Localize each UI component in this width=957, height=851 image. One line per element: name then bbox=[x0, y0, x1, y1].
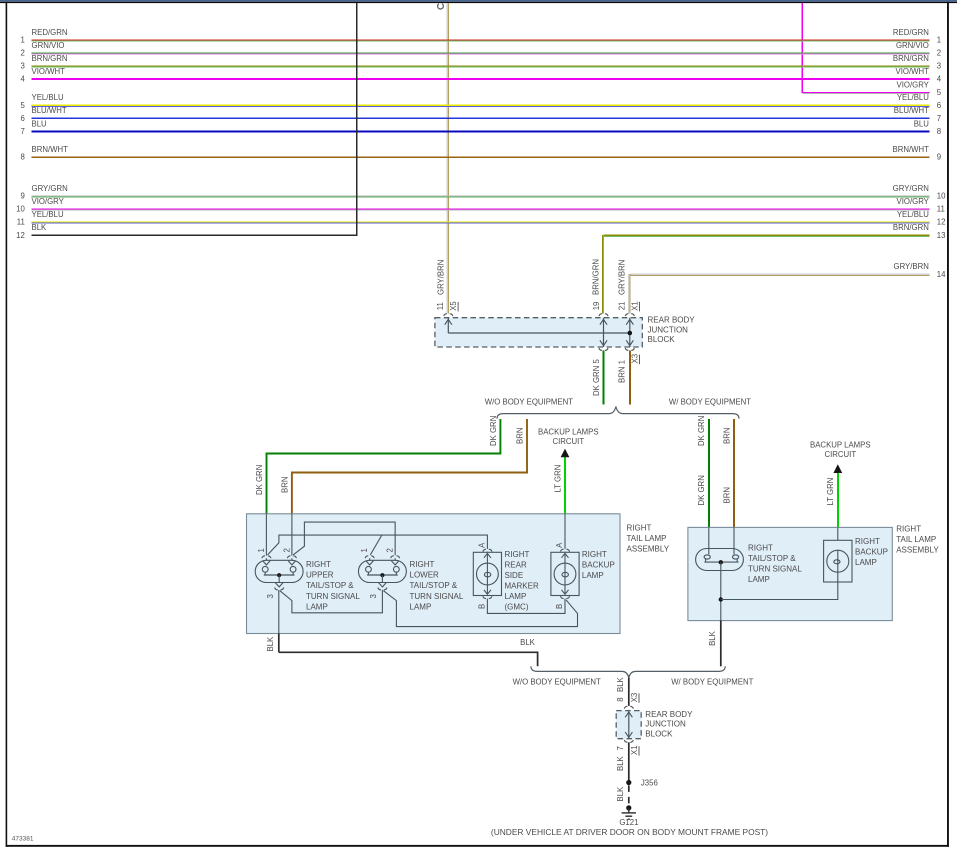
svg-text:BLOCK: BLOCK bbox=[645, 729, 673, 738]
wire BRN from junction block to brace bbox=[629, 350, 631, 404]
wire VIO/WHT row y=79.0 bbox=[32, 78, 930, 80]
svg-text:LAMP: LAMP bbox=[582, 571, 604, 580]
svg-text:BLK: BLK bbox=[520, 638, 536, 647]
svg-text:7: 7 bbox=[937, 114, 941, 123]
svg-text:YEL/BLU: YEL/BLU bbox=[897, 210, 929, 219]
svg-text:BACKUP: BACKUP bbox=[582, 560, 615, 569]
wire BRN/WHT row y=157.0 bbox=[32, 156, 930, 158]
top slate band bbox=[0, 0, 957, 2]
svg-text:2: 2 bbox=[937, 49, 941, 58]
svg-text:RIGHT: RIGHT bbox=[748, 544, 773, 553]
wire VIO/GRY row y=209.0 bbox=[32, 209, 930, 210]
wire BRN/GRN right row 13 bbox=[604, 235, 930, 236]
svg-text:VIO/GRY: VIO/GRY bbox=[897, 197, 930, 206]
right tail lamp assembly box (W/O body equipment) bbox=[247, 514, 621, 634]
svg-text:UPPER: UPPER bbox=[306, 571, 334, 580]
svg-text:A: A bbox=[478, 542, 487, 548]
wire YEL/BLU row y=222.0 bbox=[32, 222, 930, 223]
wire BLK to splice J356 bbox=[628, 742, 630, 780]
lamp RIGHT BACKUP box bbox=[551, 552, 579, 595]
svg-text:JUNCTION: JUNCTION bbox=[645, 720, 686, 729]
wire BLK from right lamp assembly bbox=[720, 621, 722, 667]
svg-text:BLU: BLU bbox=[32, 119, 48, 128]
svg-text:REAR BODY: REAR BODY bbox=[648, 316, 696, 325]
svg-text:BLK: BLK bbox=[708, 630, 717, 646]
svg-text:3: 3 bbox=[369, 594, 378, 598]
svg-text:X5: X5 bbox=[449, 301, 458, 311]
svg-text:12: 12 bbox=[16, 231, 25, 240]
svg-text:TURN SIGNAL: TURN SIGNAL bbox=[748, 565, 802, 574]
svg-text:BRN/GRN: BRN/GRN bbox=[893, 54, 929, 63]
svg-text:LAMP: LAMP bbox=[505, 592, 527, 601]
svg-text:A: A bbox=[555, 542, 564, 548]
svg-text:GRY/GRN: GRY/GRN bbox=[893, 184, 929, 193]
svg-text:7: 7 bbox=[616, 746, 625, 750]
junction block internal wire pin19 to DK GRN bbox=[603, 318, 605, 347]
wire BLU/WHT row y=118.2 bbox=[32, 117, 930, 119]
svg-text:3: 3 bbox=[266, 594, 275, 598]
svg-text:2: 2 bbox=[386, 548, 395, 552]
wire GRY/GRN row y=196.0 bbox=[32, 196, 930, 197]
svg-text:SIDE: SIDE bbox=[505, 571, 524, 580]
lamp RIGHT BACKUP LAMP right box bbox=[824, 540, 852, 582]
junction block bus bbox=[448, 332, 630, 334]
svg-text:RIGHT: RIGHT bbox=[306, 560, 331, 569]
pin A connector bbox=[561, 549, 570, 551]
svg-text:RIGHT: RIGHT bbox=[582, 550, 607, 559]
svg-text:11: 11 bbox=[937, 205, 945, 214]
bottom border bbox=[6, 845, 949, 847]
junction block internal wire pin21 to BRN bbox=[629, 318, 631, 347]
svg-text:DK GRN: DK GRN bbox=[697, 416, 706, 446]
wire ground node to right backup lamp bbox=[721, 582, 838, 600]
pin A connector bbox=[483, 549, 492, 551]
wire DK GRN right branch bbox=[708, 419, 710, 527]
svg-text:X1: X1 bbox=[630, 745, 639, 755]
svg-text:VIO/WHT: VIO/WHT bbox=[32, 67, 66, 76]
svg-text:12: 12 bbox=[937, 218, 946, 227]
svg-text:TAIL LAMP: TAIL LAMP bbox=[896, 535, 936, 544]
svg-text:DK GRN 5: DK GRN 5 bbox=[592, 359, 601, 396]
svg-text:BRN/GRN: BRN/GRN bbox=[32, 54, 68, 63]
wire GRN/VIO row y=53.0 bbox=[32, 53, 930, 54]
svg-text:4: 4 bbox=[937, 75, 942, 84]
gray feed wire into left backup lamp bbox=[564, 514, 566, 549]
svg-text:8: 8 bbox=[20, 153, 24, 162]
rear body junction block box bbox=[435, 318, 642, 347]
pin 2 internal filament bbox=[288, 561, 296, 565]
svg-text:DK GRN: DK GRN bbox=[255, 465, 264, 495]
left border bbox=[6, 2, 8, 847]
svg-text:RED/GRN: RED/GRN bbox=[893, 28, 929, 37]
svg-text:GRY/GRN: GRY/GRN bbox=[32, 184, 68, 193]
right lamp common wire bbox=[704, 561, 738, 563]
svg-text:BRN/GRN: BRN/GRN bbox=[592, 259, 601, 295]
svg-text:LOWER: LOWER bbox=[410, 571, 440, 580]
pin 2 connector bbox=[391, 556, 400, 558]
svg-text:YEL/BLU: YEL/BLU bbox=[897, 93, 929, 102]
svg-text:(UNDER VEHICLE AT DRIVER DOOR: (UNDER VEHICLE AT DRIVER DOOR ON BODY MO… bbox=[491, 827, 768, 837]
lamp internal common wire bbox=[264, 574, 295, 576]
svg-text:14: 14 bbox=[937, 270, 946, 279]
svg-text:7: 7 bbox=[20, 127, 24, 136]
svg-text:10: 10 bbox=[937, 192, 946, 201]
wire pin2 branch to lower lamp bbox=[293, 522, 395, 555]
svg-text:W/ BODY EQUIPMENT: W/ BODY EQUIPMENT bbox=[669, 397, 751, 406]
wire VIO/GRY row y=92.3 bbox=[802, 92, 929, 93]
svg-text:(GMC): (GMC) bbox=[505, 602, 529, 611]
svg-text:VIO/GRY: VIO/GRY bbox=[897, 80, 930, 89]
svg-text:9: 9 bbox=[937, 153, 941, 162]
pin B connector bbox=[561, 596, 570, 598]
pin 21 X1 entry bbox=[625, 314, 634, 316]
svg-text:TURN SIGNAL: TURN SIGNAL bbox=[410, 592, 464, 601]
svg-text:W/O BODY EQUIPMENT: W/O BODY EQUIPMENT bbox=[485, 397, 573, 406]
svg-text:1: 1 bbox=[937, 36, 941, 45]
pin 3 exit bbox=[275, 583, 283, 587]
svg-text:13: 13 bbox=[937, 231, 946, 240]
svg-text:BLK: BLK bbox=[266, 636, 275, 652]
svg-text:RED/GRN: RED/GRN bbox=[32, 28, 68, 37]
wire RED/GRN row y=40.0 bbox=[32, 40, 930, 41]
svg-text:3: 3 bbox=[937, 62, 941, 71]
lamp RIGHT UPPER stadium body bbox=[255, 560, 303, 582]
svg-text:YEL/BLU: YEL/BLU bbox=[32, 93, 64, 102]
wire BRN/GRN row y=66.0 bbox=[32, 66, 930, 67]
svg-text:3: 3 bbox=[20, 62, 24, 71]
svg-text:6: 6 bbox=[937, 101, 941, 110]
svg-text:BRN: BRN bbox=[722, 428, 731, 444]
pin 11 X5 entry bbox=[444, 314, 453, 316]
svg-text:YEL/BLU: YEL/BLU bbox=[32, 210, 64, 219]
junction block internal wire from pin 11 bbox=[447, 318, 449, 333]
svg-text:BRN 1: BRN 1 bbox=[617, 360, 626, 383]
pin 19 entry bbox=[599, 314, 608, 316]
svg-text:BLK: BLK bbox=[616, 786, 625, 802]
wire BLK riser vertical bbox=[356, 3, 358, 236]
pin 3 exit bbox=[379, 583, 387, 587]
wire BRN right branch bbox=[733, 419, 735, 527]
pin 2 internal filament bbox=[391, 561, 399, 565]
wire DK GRN from junction block to brace bbox=[603, 350, 605, 404]
svg-text:BLU/WHT: BLU/WHT bbox=[894, 106, 929, 115]
svg-text:CIRCUIT: CIRCUIT bbox=[824, 450, 856, 459]
svg-text:LAMP: LAMP bbox=[855, 558, 877, 567]
svg-text:BLU/WHT: BLU/WHT bbox=[32, 106, 67, 115]
svg-text:X1: X1 bbox=[631, 301, 640, 311]
svg-text:11: 11 bbox=[436, 302, 445, 310]
svg-text:BRN: BRN bbox=[722, 487, 731, 503]
wire LT GRN left backup lamps circuit bbox=[564, 456, 566, 514]
pin B connector bbox=[483, 596, 492, 598]
wire BLK to rear body junction block 2 bbox=[628, 678, 630, 706]
svg-text:473381: 473381 bbox=[12, 835, 34, 842]
lamp RIGHT LOWER stadium body bbox=[358, 560, 406, 582]
svg-text:BACKUP: BACKUP bbox=[855, 548, 888, 557]
svg-text:BACKUP LAMPS: BACKUP LAMPS bbox=[810, 440, 871, 449]
wire pin3 net of lower lamp bbox=[383, 591, 577, 627]
svg-text:BLOCK: BLOCK bbox=[648, 335, 676, 344]
gray feed wires into right dual lamp bbox=[708, 527, 710, 548]
wire GRY/BRN left vertical from top to pin 11 bbox=[447, 3, 448, 314]
pin 7 X1 exit bbox=[624, 740, 633, 742]
right tail lamp assembly box (W/ body equipment) bbox=[688, 527, 892, 620]
svg-text:BRN/WHT: BRN/WHT bbox=[893, 145, 930, 154]
wire BRN/GRN vertical to junction block pin 19 bbox=[602, 235, 603, 314]
bulb circle bbox=[477, 563, 499, 585]
svg-text:5: 5 bbox=[937, 88, 942, 97]
svg-text:J356: J356 bbox=[641, 779, 658, 788]
pin 1 connector bbox=[262, 556, 271, 558]
svg-text:B: B bbox=[555, 604, 564, 609]
wire BLK from upper lamp pin 3 bbox=[278, 634, 280, 653]
svg-text:10: 10 bbox=[16, 205, 25, 214]
svg-text:B: B bbox=[478, 604, 487, 609]
svg-text:RIGHT: RIGHT bbox=[627, 524, 652, 533]
svg-text:ASSEMBLY: ASSEMBLY bbox=[627, 545, 670, 554]
svg-text:BLK: BLK bbox=[616, 755, 625, 771]
svg-text:BRN: BRN bbox=[280, 477, 289, 493]
svg-text:DK GRN: DK GRN bbox=[489, 416, 498, 446]
svg-text:8: 8 bbox=[937, 127, 941, 136]
svg-text:RIGHT: RIGHT bbox=[505, 550, 530, 559]
svg-text:BLK: BLK bbox=[32, 223, 48, 232]
svg-text:BRN/WHT: BRN/WHT bbox=[32, 145, 69, 154]
svg-text:19: 19 bbox=[592, 302, 601, 311]
svg-text:JUNCTION: JUNCTION bbox=[648, 325, 689, 334]
lamp RIGHT REAR box bbox=[473, 552, 501, 595]
svg-text:TAIL/STOP &: TAIL/STOP & bbox=[306, 581, 354, 590]
svg-text:6: 6 bbox=[20, 114, 24, 123]
pin 1 connector bbox=[365, 556, 374, 558]
ground G121 bbox=[626, 805, 631, 810]
pin 1 internal filament bbox=[263, 561, 271, 565]
right border bbox=[947, 2, 949, 847]
svg-text:VIO/WHT: VIO/WHT bbox=[896, 67, 930, 76]
svg-text:BRN/GRN: BRN/GRN bbox=[893, 223, 929, 232]
svg-text:RIGHT: RIGHT bbox=[896, 525, 921, 534]
rear body junction block 2 box bbox=[616, 711, 641, 739]
pin 2 connector bbox=[287, 556, 296, 558]
brace splitting circuits bbox=[497, 407, 739, 419]
svg-text:W/ BODY EQUIPMENT: W/ BODY EQUIPMENT bbox=[671, 678, 753, 687]
wire BRN left branch bbox=[292, 419, 527, 514]
junction block bus junction dot bbox=[628, 331, 633, 336]
lamp RIGHT TAIL/STOP & TURN SIGNAL LAMP stadium bbox=[696, 549, 744, 571]
svg-text:DK GRN: DK GRN bbox=[697, 475, 706, 505]
svg-text:GRY/BRN: GRY/BRN bbox=[617, 260, 626, 295]
svg-text:LT GRN: LT GRN bbox=[826, 478, 835, 506]
junction block 2 internal wire bbox=[628, 711, 630, 739]
pin 5 exit DK GRN bbox=[599, 348, 608, 350]
wire marker B to backup B bbox=[487, 599, 565, 614]
svg-text:LT GRN: LT GRN bbox=[553, 465, 562, 493]
pin 1 internal filament bbox=[366, 561, 374, 565]
svg-text:GRN/VIO: GRN/VIO bbox=[896, 41, 929, 50]
brace joining BLK circuits bbox=[531, 666, 725, 677]
svg-text:1: 1 bbox=[257, 548, 266, 552]
svg-text:RIGHT: RIGHT bbox=[410, 560, 435, 569]
pin 1 exit BRN X3 bbox=[625, 348, 634, 350]
svg-text:LAMP: LAMP bbox=[748, 575, 770, 584]
svg-text:TURN SIGNAL: TURN SIGNAL bbox=[306, 592, 360, 601]
svg-text:MARKER: MARKER bbox=[505, 581, 539, 590]
svg-text:TAIL/STOP &: TAIL/STOP & bbox=[410, 581, 458, 590]
svg-text:ASSEMBLY: ASSEMBLY bbox=[896, 546, 939, 555]
pin 8 X3 entry bbox=[624, 706, 633, 708]
svg-text:GRN/VIO: GRN/VIO bbox=[32, 41, 65, 50]
svg-text:BACKUP LAMPS: BACKUP LAMPS bbox=[538, 428, 599, 437]
wire DK GRN left branch bbox=[267, 419, 501, 514]
svg-text:1: 1 bbox=[20, 36, 24, 45]
svg-text:1: 1 bbox=[360, 548, 369, 552]
bulb filament bbox=[486, 553, 488, 594]
svg-text:BLU: BLU bbox=[914, 119, 930, 128]
svg-text:REAR: REAR bbox=[505, 560, 527, 569]
svg-text:TAIL/STOP &: TAIL/STOP & bbox=[748, 554, 796, 563]
svg-text:LAMP: LAMP bbox=[306, 602, 328, 611]
wire GRY/BRN right row 14 bbox=[630, 274, 930, 275]
gray feed wires into lamp 1 bbox=[265, 514, 267, 556]
svg-text:REAR BODY: REAR BODY bbox=[645, 710, 693, 719]
wire pin1 branch to lower lamp and marker bbox=[268, 535, 488, 555]
svg-text:CIRCUIT: CIRCUIT bbox=[552, 437, 584, 446]
lamp internal common wire bbox=[367, 574, 398, 576]
top black border bbox=[0, 2, 957, 3]
svg-text:BLK: BLK bbox=[616, 676, 625, 692]
svg-text:X3: X3 bbox=[631, 354, 640, 364]
off-page connector circle at top of GRY/BRN bbox=[438, 4, 444, 9]
svg-text:11: 11 bbox=[17, 218, 25, 227]
svg-text:G121: G121 bbox=[619, 818, 638, 827]
gray feed wire into right backup lamp bbox=[837, 527, 839, 540]
svg-text:2: 2 bbox=[20, 49, 24, 58]
wire from right lamp to ground node bbox=[720, 562, 722, 621]
svg-text:5: 5 bbox=[20, 101, 25, 110]
bulb filament bbox=[564, 553, 566, 594]
wire GRY/BRN vertical to junction block pin 21 bbox=[628, 274, 629, 314]
svg-text:VIO/GRY: VIO/GRY bbox=[32, 197, 65, 206]
wire LT GRN right backup lamps circuit bbox=[837, 472, 839, 527]
wire BLK left row 12 bbox=[32, 234, 357, 236]
wire BLK dashed to ground bbox=[628, 785, 630, 805]
svg-text:4: 4 bbox=[20, 75, 25, 84]
splice J356 bbox=[626, 780, 631, 785]
svg-text:W/O BODY EQUIPMENT: W/O BODY EQUIPMENT bbox=[513, 678, 601, 687]
svg-text:GRY/BRN: GRY/BRN bbox=[894, 262, 929, 271]
svg-text:2: 2 bbox=[282, 548, 291, 552]
svg-text:LAMP: LAMP bbox=[410, 602, 432, 611]
wire VIO/GRY vertical from top (right 5) bbox=[802, 3, 804, 93]
svg-text:RIGHT: RIGHT bbox=[855, 537, 880, 546]
svg-text:9: 9 bbox=[20, 192, 24, 201]
wire YEL/BLU row y=105.2 bbox=[32, 105, 930, 106]
svg-text:BRN: BRN bbox=[515, 428, 524, 444]
svg-text:TAIL LAMP: TAIL LAMP bbox=[627, 534, 667, 543]
bulb circle bbox=[554, 563, 576, 585]
svg-text:8: 8 bbox=[616, 697, 625, 701]
svg-text:GRY/BRN: GRY/BRN bbox=[436, 260, 445, 295]
wire pin3 net of upper lamp bbox=[278, 590, 280, 634]
svg-text:21: 21 bbox=[617, 302, 626, 311]
svg-text:X3: X3 bbox=[630, 693, 639, 703]
wire BLU row y=131.4 bbox=[32, 130, 930, 132]
right lamp filaments bbox=[708, 549, 710, 555]
